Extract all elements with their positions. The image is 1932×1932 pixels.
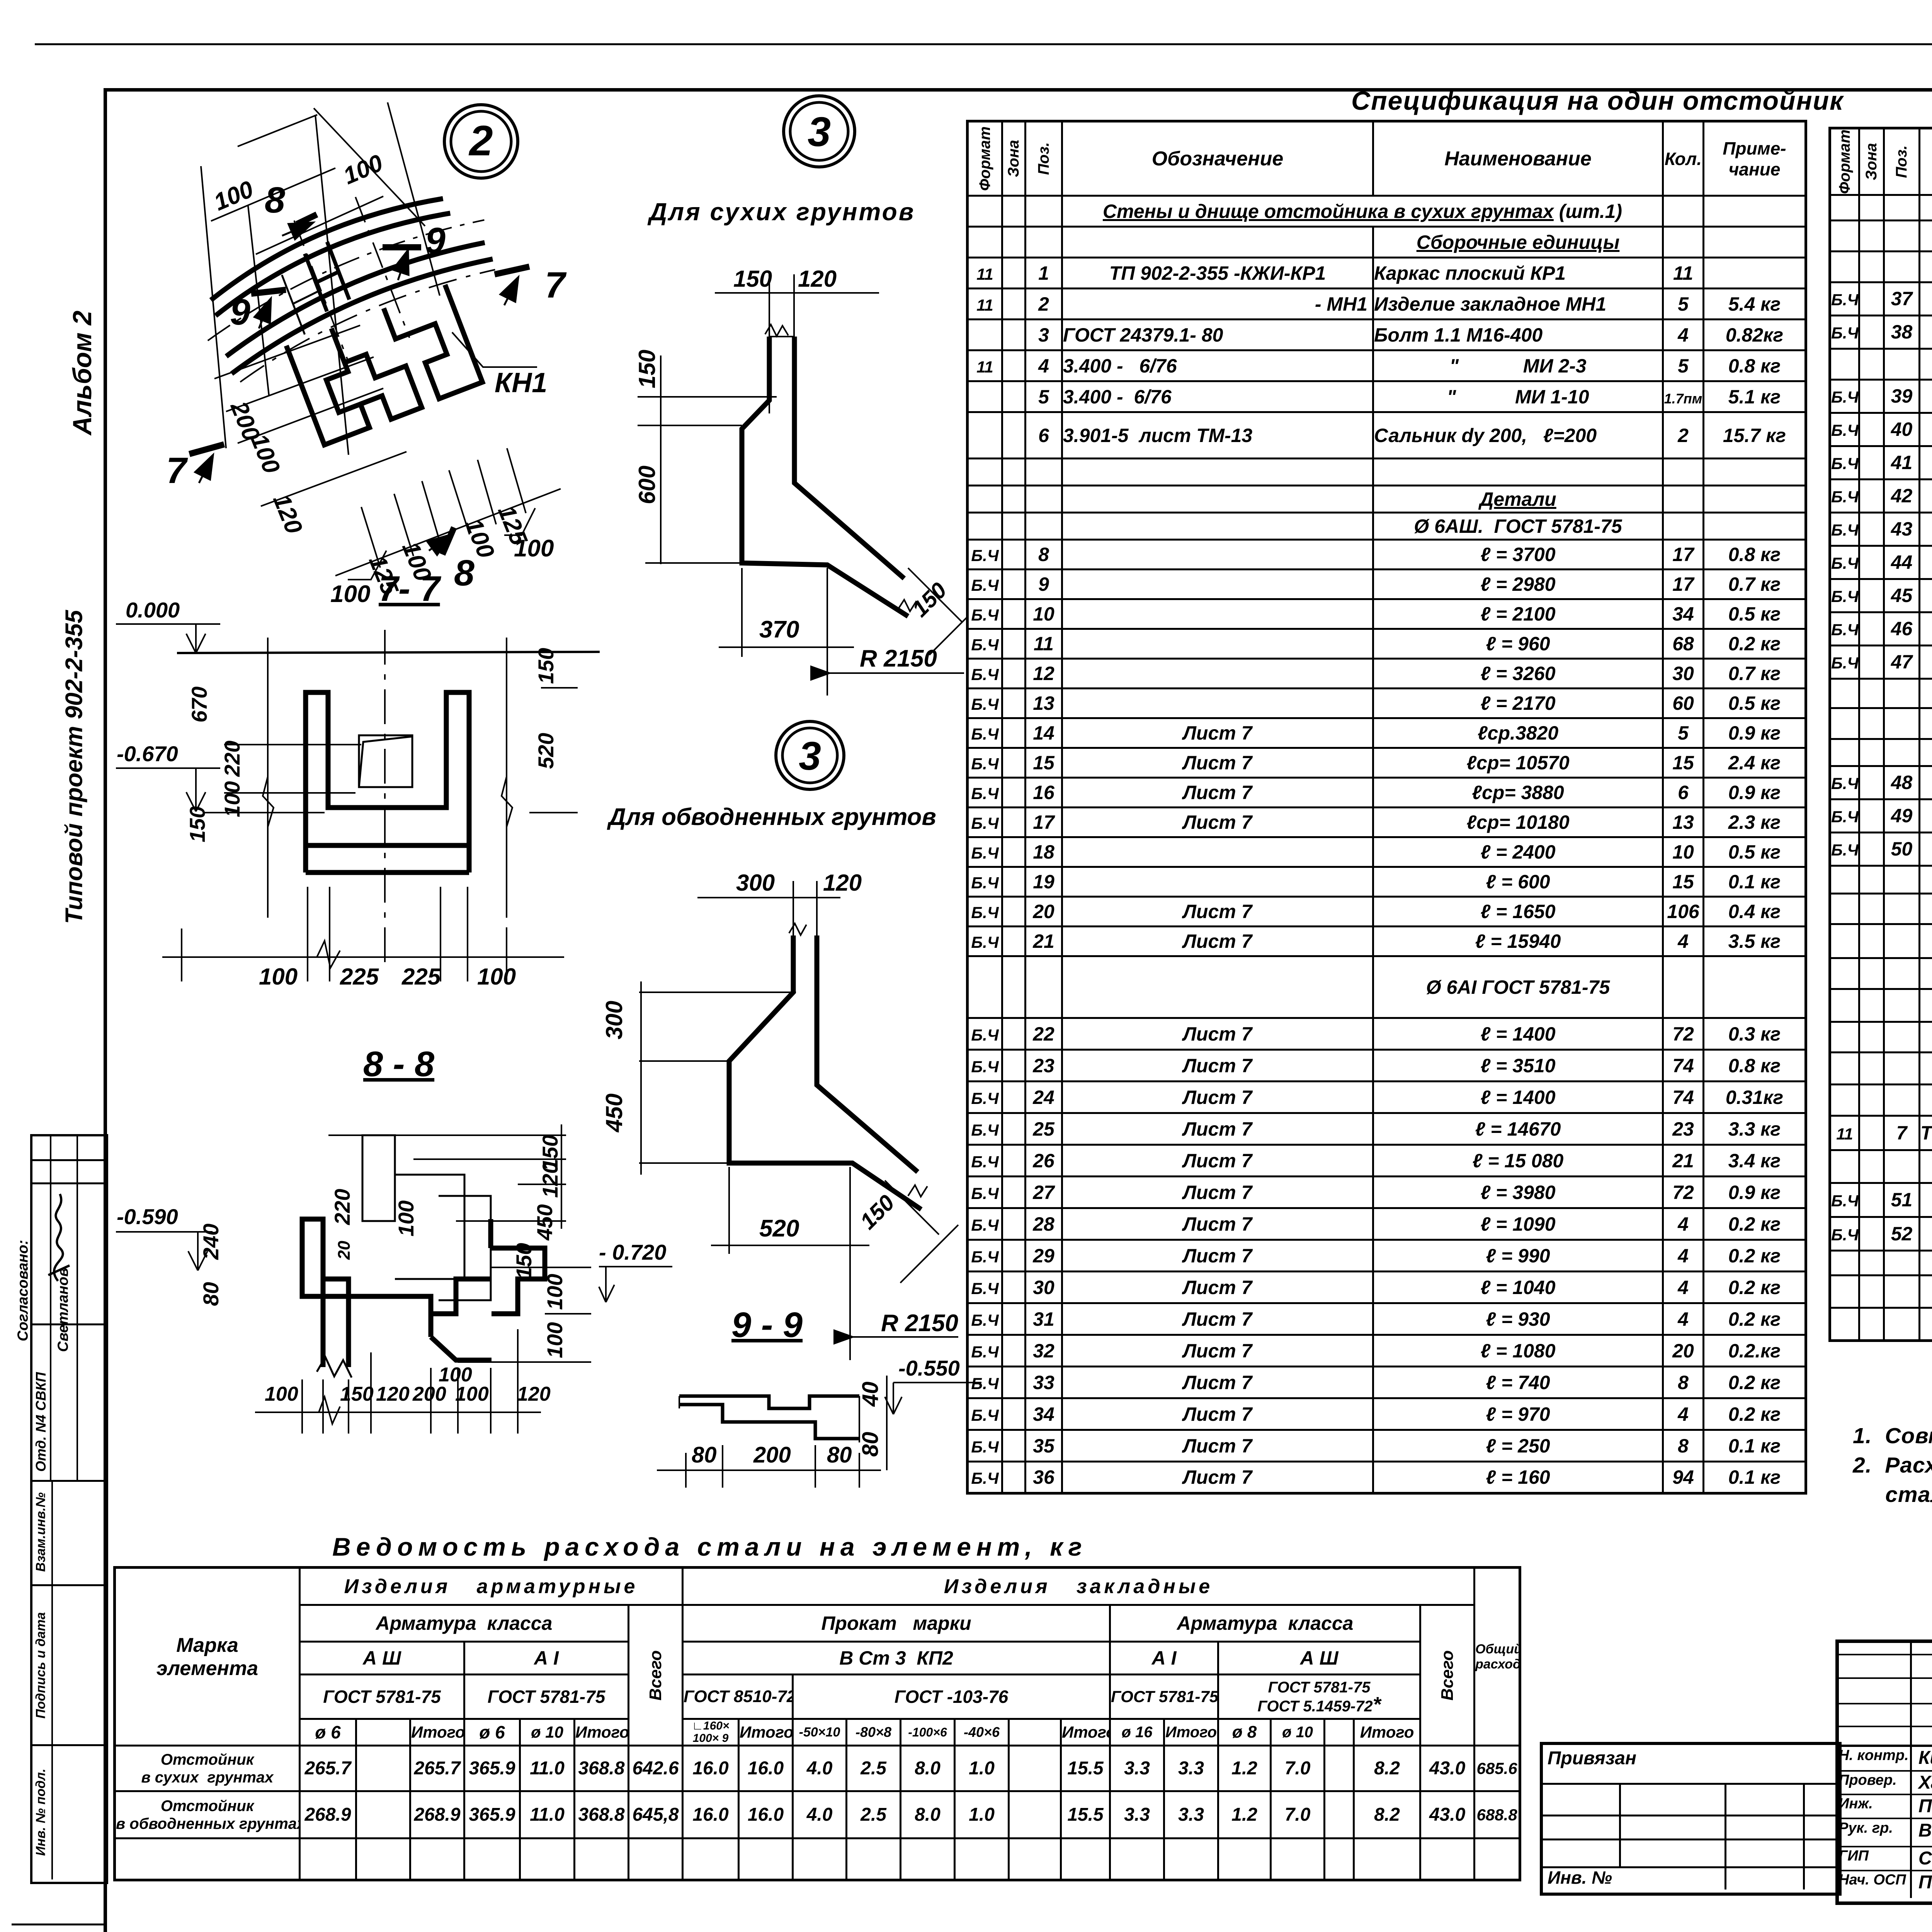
svg-text:7: 7 — [545, 265, 567, 306]
svg-text:R 2150: R 2150 — [881, 1310, 958, 1337]
svg-text:-0.550: -0.550 — [898, 1356, 960, 1380]
pilaster outline — [286, 328, 369, 445]
svg-text:150: 150 — [185, 806, 209, 842]
U-shaped wall section — [306, 692, 469, 872]
svg-text:Для обводненных грунтов: Для обводненных грунтов — [607, 804, 936, 830]
svg-text:КН1: КН1 — [495, 367, 547, 398]
title block — [1835, 1639, 1932, 1905]
svg-text:220: 220 — [220, 741, 244, 777]
svg-text:9 - 9: 9 - 9 — [731, 1305, 803, 1345]
top dims 150 120 — [715, 274, 879, 413]
svg-text:100: 100 — [543, 1274, 567, 1310]
svg-text:80: 80 — [827, 1442, 852, 1468]
svg-text:80: 80 — [858, 1432, 883, 1457]
left dims 670 220 100 150 — [185, 687, 244, 842]
svg-text:40: 40 — [858, 1381, 883, 1407]
svg-text:220: 220 — [330, 1189, 354, 1225]
section marker 7 right — [495, 267, 529, 305]
svg-text:450: 450 — [532, 1204, 557, 1241]
svg-text:7- 7: 7- 7 — [379, 569, 441, 609]
svg-text:100: 100 — [220, 781, 244, 817]
svg-text:150: 150 — [634, 350, 660, 388]
thick stepped wall outline — [302, 1219, 545, 1378]
svg-text:150: 150 — [534, 648, 558, 684]
svg-text:120: 120 — [517, 1383, 551, 1405]
svg-text:200: 200 — [753, 1442, 791, 1468]
detail balloon 3 — [784, 96, 855, 167]
sheet title — [1351, 86, 1844, 116]
svg-text:-0.670: -0.670 — [117, 742, 178, 766]
svg-text:100: 100 — [394, 1201, 418, 1236]
bottom dim chain — [255, 1329, 541, 1434]
svg-text:240: 240 — [199, 1224, 223, 1260]
svg-text:120: 120 — [268, 490, 308, 537]
section marker 7 left — [189, 444, 224, 483]
bottom dims 520 150 R2150 — [711, 1167, 869, 1360]
tank wall plan (curved bands and pilasters) — [179, 157, 539, 471]
dims 300 450 — [601, 1001, 627, 1133]
detail balloon 3b — [776, 721, 844, 789]
bottom dimension chain 125 100 100 125 100 — [335, 448, 561, 576]
label KH1 — [452, 332, 537, 367]
section marker 8 bottom — [429, 527, 454, 554]
svg-text:80: 80 — [199, 1282, 223, 1306]
svg-text:100: 100 — [543, 1322, 567, 1358]
svg-text:3: 3 — [808, 108, 831, 155]
svg-text:100: 100 — [210, 176, 257, 216]
svg-text:0.000: 0.000 — [126, 598, 180, 622]
notes — [1853, 1421, 1932, 1509]
steel consumption table title — [332, 1532, 1087, 1561]
9-9 dims — [657, 1376, 887, 1488]
svg-text:100: 100 — [439, 1364, 472, 1386]
svg-text:520: 520 — [759, 1215, 799, 1242]
dim 600 150 (far left, ties to 7-7) — [660, 355, 662, 564]
svg-text:8: 8 — [265, 180, 285, 221]
break marks — [263, 777, 274, 827]
svg-text:100: 100 — [265, 1383, 298, 1405]
section 8-8 — [108, 1043, 665, 1530]
fan edge thin lines — [201, 102, 440, 455]
right dim lines — [328, 1124, 591, 1362]
thin level lines left — [638, 397, 777, 563]
svg-text:225: 225 — [401, 964, 441, 990]
section marker 9 left — [251, 290, 286, 328]
svg-text:150: 150 — [855, 1190, 899, 1234]
svg-text:Для сухих грунтов: Для сухих грунтов — [647, 198, 915, 226]
section marker 9 right — [383, 247, 421, 280]
svg-text:2: 2 — [468, 117, 493, 165]
svg-text:7: 7 — [166, 450, 188, 491]
svg-text:9: 9 — [425, 220, 446, 261]
svg-text:150: 150 — [512, 1243, 536, 1279]
level lines — [639, 981, 796, 1175]
svg-text:300: 300 — [601, 1001, 627, 1039]
svg-text:200: 200 — [412, 1383, 446, 1405]
break squiggles — [789, 923, 806, 935]
svg-text:150: 150 — [340, 1383, 374, 1405]
embedded square opening — [359, 735, 412, 787]
9-9 small section — [679, 1396, 859, 1442]
wall profile outline — [729, 935, 921, 1209]
svg-text:300: 300 — [736, 870, 775, 896]
section 7-7 — [108, 560, 622, 1005]
svg-text:600: 600 — [634, 466, 660, 504]
profile detail 3 waterlogged soils — [599, 734, 1005, 1507]
thin rectangles (wall panels) — [362, 1135, 491, 1300]
privyazan block — [1540, 1742, 1842, 1896]
break squiggle top — [765, 325, 788, 336]
svg-text:120: 120 — [798, 266, 837, 292]
svg-text:-0.590: -0.590 — [117, 1204, 178, 1229]
top dimension lines 100 — [211, 115, 383, 254]
svg-text:520: 520 — [534, 733, 558, 769]
svg-text:150: 150 — [538, 1135, 562, 1171]
ground line — [177, 652, 600, 653]
left dimension chain 200 100 120 — [214, 325, 406, 506]
centerlines — [205, 630, 578, 972]
right dims 150 520 — [534, 648, 558, 769]
margin labels — [15, 1240, 32, 1341]
detail balloon 2 — [444, 105, 518, 178]
svg-text:450: 450 — [601, 1094, 627, 1133]
section marker 8 top — [282, 214, 317, 236]
svg-text:100: 100 — [455, 1383, 489, 1405]
svg-text:370: 370 — [759, 616, 799, 643]
svg-text:100: 100 — [514, 535, 554, 562]
sheet top edge line — [35, 43, 1932, 45]
wall profile outline — [742, 337, 908, 616]
svg-text:20: 20 — [335, 1241, 354, 1260]
svg-text:100: 100 — [477, 964, 516, 990]
bottom dim chain 100 225 225 100 — [162, 887, 564, 981]
svg-text:670: 670 — [187, 687, 211, 723]
svg-text:120: 120 — [376, 1383, 410, 1405]
svg-text:3: 3 — [799, 734, 821, 779]
svg-text:9: 9 — [230, 292, 250, 333]
right specification table — [1828, 127, 1932, 1342]
svg-text:80: 80 — [692, 1442, 717, 1468]
left margin boxes — [30, 1134, 108, 1884]
plan view detail 2 — [155, 97, 676, 645]
dim labels — [199, 1135, 567, 1358]
svg-text:120: 120 — [823, 870, 862, 896]
svg-text:- 0.720: - 0.720 — [599, 1240, 666, 1264]
svg-text:100: 100 — [259, 964, 298, 990]
svg-text:100: 100 — [340, 150, 387, 190]
left specification table — [966, 120, 1807, 1495]
bottom-left stray line — [12, 1923, 104, 1925]
top dims 300 120 — [697, 881, 840, 951]
svg-text:225: 225 — [340, 964, 379, 990]
margin signature — [37, 1186, 79, 1287]
album label — [67, 311, 97, 435]
svg-text:150: 150 — [733, 266, 772, 292]
svg-text:8 - 8: 8 - 8 — [363, 1044, 435, 1084]
dim 370 / R2150 / 150 — [719, 568, 854, 696]
svg-text:R 2150: R 2150 — [860, 645, 937, 672]
profile detail 3 dry soils — [638, 108, 1005, 696]
svg-text:150: 150 — [907, 578, 951, 622]
project label — [61, 610, 88, 924]
steel consumption table — [113, 1566, 1521, 1881]
